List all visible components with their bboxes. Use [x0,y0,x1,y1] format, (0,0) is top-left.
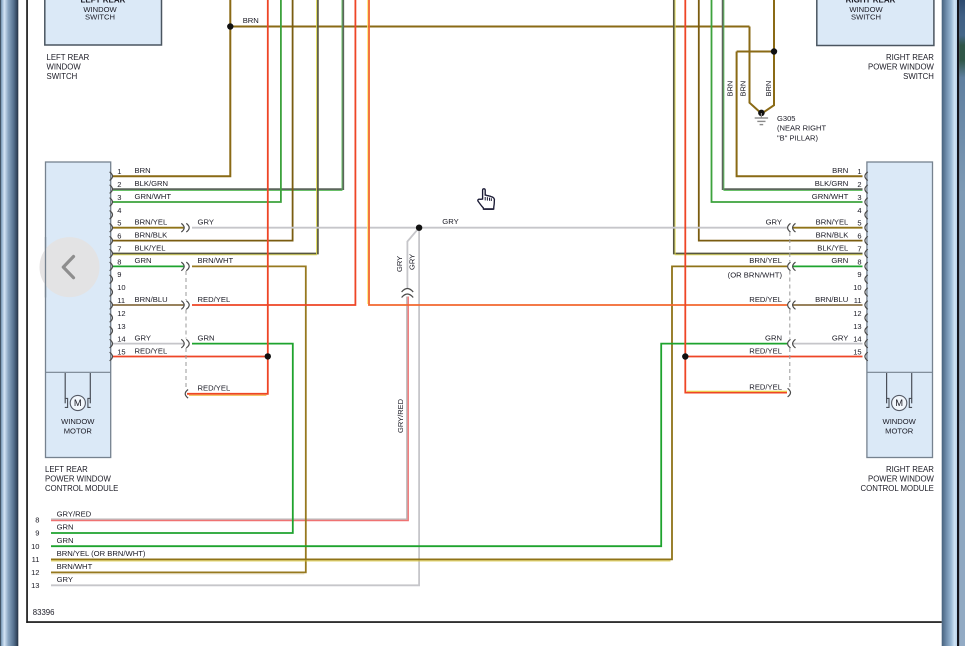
svg-text:BRN: BRN [832,166,848,175]
svg-text:GRN: GRN [765,333,782,342]
svg-text:4: 4 [857,206,861,215]
svg-text:RED/YEL: RED/YEL [749,346,782,355]
svg-text:10: 10 [31,542,39,551]
svg-text:4: 4 [117,206,121,215]
svg-text:RIGHT REAR: RIGHT REAR [846,0,896,5]
svg-text:LEFT REAR: LEFT REAR [45,465,88,474]
svg-text:SWITCH: SWITCH [85,12,115,21]
svg-text:BRN: BRN [726,81,735,97]
svg-text:BRN: BRN [764,81,773,97]
svg-text:5: 5 [117,219,121,228]
svg-text:LEFT REAR: LEFT REAR [47,53,90,62]
svg-text:11: 11 [32,555,40,564]
svg-text:(NEAR RIGHT: (NEAR RIGHT [777,124,826,133]
svg-text:(OR BRN/WHT): (OR BRN/WHT) [728,270,783,279]
svg-text:BRN: BRN [135,166,151,175]
svg-text:WINDOW: WINDOW [47,63,82,72]
svg-text:10: 10 [117,283,125,292]
svg-text:BLK/YEL: BLK/YEL [135,243,166,252]
svg-text:GRN: GRN [135,256,152,265]
svg-text:BRN/WHT: BRN/WHT [57,562,93,571]
svg-text:11: 11 [854,296,862,305]
svg-text:14: 14 [117,335,125,344]
svg-text:BRN/BLK: BRN/BLK [135,230,169,239]
svg-text:BRN/BLU: BRN/BLU [135,295,168,304]
svg-text:BRN/YEL: BRN/YEL [749,256,782,265]
svg-text:12: 12 [853,309,861,318]
svg-text:POWER WINDOW: POWER WINDOW [868,63,934,72]
svg-text:BRN/YEL: BRN/YEL [135,218,168,227]
svg-text:13: 13 [853,322,861,331]
svg-text:15: 15 [117,348,125,357]
svg-text:SWITCH: SWITCH [903,72,934,81]
svg-text:7: 7 [857,245,861,254]
svg-text:RED/YEL: RED/YEL [749,295,782,304]
svg-text:14: 14 [853,335,861,344]
svg-text:GRY: GRY [135,333,151,342]
svg-text:GRN: GRN [57,523,74,532]
svg-text:GRY: GRY [395,256,404,272]
svg-text:GRY: GRY [442,217,458,226]
svg-text:83396: 83396 [33,608,55,617]
svg-text:9: 9 [117,270,121,279]
svg-text:7: 7 [117,245,121,254]
svg-text:GRN/WHT: GRN/WHT [812,192,849,201]
svg-text:RED/YEL: RED/YEL [135,346,168,355]
svg-text:13: 13 [31,581,39,590]
svg-text:CONTROL MODULE: CONTROL MODULE [45,484,118,493]
svg-text:BRN/YEL (OR BRN/WHT): BRN/YEL (OR BRN/WHT) [57,549,146,558]
svg-text:RED/YEL: RED/YEL [749,382,782,391]
svg-text:WINDOW: WINDOW [61,417,95,426]
svg-text:GRY/RED: GRY/RED [57,509,92,518]
svg-text:15: 15 [853,348,861,357]
svg-text:RED/YEL: RED/YEL [198,295,231,304]
svg-text:3: 3 [117,193,121,202]
svg-text:M: M [74,397,82,408]
svg-text:GRN/WHT: GRN/WHT [135,192,172,201]
svg-text:G305: G305 [777,114,795,123]
svg-text:BRN/WHT: BRN/WHT [198,256,234,265]
svg-text:RIGHT REAR: RIGHT REAR [886,465,934,474]
svg-text:BRN: BRN [243,16,259,25]
svg-text:CONTROL MODULE: CONTROL MODULE [861,484,934,493]
svg-text:9: 9 [857,270,861,279]
svg-text:MOTOR: MOTOR [64,427,93,436]
svg-text:GRN: GRN [57,536,74,545]
svg-text:8: 8 [117,257,121,266]
svg-text:RED/YEL: RED/YEL [198,384,231,393]
svg-text:3: 3 [857,193,861,202]
svg-text:10: 10 [853,283,861,292]
svg-text:13: 13 [117,322,125,331]
svg-text:POWER WINDOW: POWER WINDOW [45,475,111,484]
svg-text:BRN/BLU: BRN/BLU [815,295,848,304]
svg-text:BRN/YEL: BRN/YEL [816,218,849,227]
svg-text:RIGHT REAR: RIGHT REAR [886,53,934,62]
svg-text:GRY/RED: GRY/RED [396,398,405,433]
svg-text:"B" PILLAR): "B" PILLAR) [777,133,818,142]
svg-text:SWITCH: SWITCH [851,13,881,22]
svg-text:BLK/GRN: BLK/GRN [815,179,849,188]
svg-text:6: 6 [117,232,121,241]
svg-text:POWER WINDOW: POWER WINDOW [868,475,934,484]
svg-text:M: M [895,397,903,408]
svg-text:8: 8 [857,257,861,266]
svg-text:2: 2 [857,180,861,189]
svg-text:GRY: GRY [198,218,214,227]
svg-text:SWITCH: SWITCH [47,72,78,81]
svg-text:BLK/GRN: BLK/GRN [135,179,169,188]
svg-text:8: 8 [35,515,39,524]
svg-text:11: 11 [117,296,125,305]
svg-text:1: 1 [857,167,861,176]
svg-text:GRY: GRY [766,218,782,227]
svg-text:BLK/YEL: BLK/YEL [817,243,848,252]
svg-text:GRY: GRY [57,575,73,584]
svg-text:12: 12 [31,568,39,577]
svg-text:MOTOR: MOTOR [885,427,914,436]
svg-text:5: 5 [857,219,861,228]
svg-text:GRY: GRY [832,333,848,342]
svg-text:GRN: GRN [831,256,848,265]
svg-text:BRN: BRN [738,81,747,97]
svg-text:GRY: GRY [408,254,417,270]
svg-text:12: 12 [117,309,125,318]
svg-text:9: 9 [35,529,39,538]
svg-text:GRN: GRN [198,333,215,342]
svg-text:2: 2 [117,180,121,189]
svg-text:WINDOW: WINDOW [883,417,917,426]
svg-text:BRN/BLK: BRN/BLK [816,230,850,239]
svg-text:6: 6 [857,232,861,241]
svg-text:1: 1 [117,167,121,176]
